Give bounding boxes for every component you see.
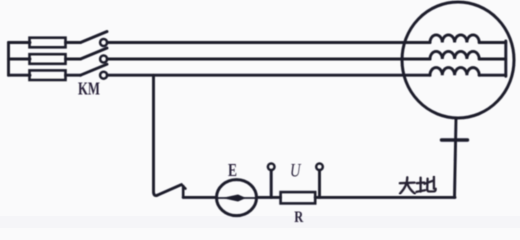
motor M body (stator circle) (402, 2, 514, 118)
fuse (phase C) (30, 70, 66, 80)
wire: phase C tap down to test switch (154, 75, 158, 195)
label 地 (earth, char 2) (416, 177, 435, 192)
earth terminal crossbar (442, 138, 468, 141)
wire: coil A to star point (479, 41, 506, 44)
terminal (U right probe) (316, 164, 323, 198)
wire: phase C bus to fuse (9, 74, 31, 77)
fuse (phase B) (30, 54, 66, 64)
motor M stator winding (phase C coil) (430, 68, 479, 76)
galvanometer E (217, 180, 257, 216)
svg-text:R: R (294, 209, 304, 226)
motor M stator winding (phase A coil) (430, 35, 479, 43)
wire: coil C to star point (479, 74, 506, 77)
svg-text:KM: KM (78, 79, 100, 99)
svg-text:U: U (290, 161, 301, 182)
node: three-phase supply bus (7, 43, 10, 76)
contactor KM contact (phase A) (81, 32, 108, 47)
wire: motor frame to earth (455, 118, 457, 197)
label 大 (earth, char 1) (400, 177, 415, 193)
wire: resistor to earth electrode (315, 196, 455, 199)
wire: phase C to motor winding (107, 74, 430, 77)
switch S fixed contact (182, 186, 185, 197)
contactor KM contact (phase C) (81, 64, 108, 79)
node: star point bar (504, 41, 507, 76)
wire: galvanometer to resistor (257, 196, 281, 199)
wire: fuse B to contact (66, 58, 81, 61)
fuse (phase A) (30, 38, 66, 48)
terminal (U left probe) (268, 164, 275, 198)
wire: fuse C to contact (66, 74, 81, 77)
wire: phase A bus to fuse (9, 41, 31, 44)
wire: fuse A to contact (66, 41, 81, 44)
resistor R (281, 192, 316, 203)
switch S blade (open) (157, 185, 186, 196)
contactor KM contact (phase B) (81, 48, 108, 63)
wire: phase B to motor winding (107, 58, 430, 61)
svg-text:E: E (228, 160, 237, 180)
wire: phase A to motor winding (107, 41, 430, 44)
wire: phase B bus to fuse (9, 58, 31, 61)
wire: switch to galvanometer (183, 196, 216, 199)
motor M stator winding (phase B coil) (430, 51, 479, 59)
wire: coil B to star point (479, 58, 506, 61)
